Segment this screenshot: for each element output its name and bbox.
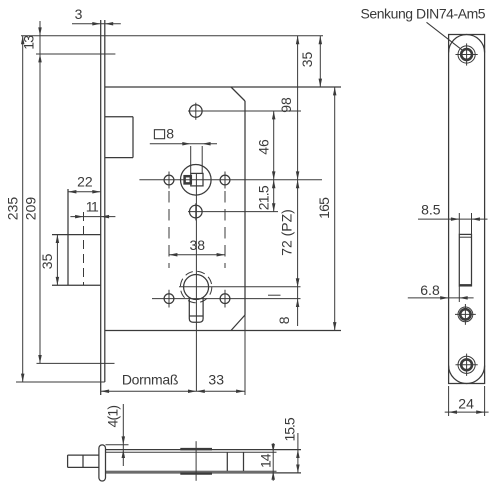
svg-text:98: 98 bbox=[278, 97, 294, 113]
svg-text:24: 24 bbox=[458, 395, 474, 411]
svg-text:33: 33 bbox=[208, 372, 224, 388]
svg-text:35: 35 bbox=[299, 52, 315, 68]
svg-text:46: 46 bbox=[255, 139, 271, 155]
svg-text:22: 22 bbox=[77, 174, 93, 190]
svg-text:14: 14 bbox=[257, 453, 273, 468]
svg-text:3: 3 bbox=[75, 6, 83, 22]
svg-text:4(1): 4(1) bbox=[105, 406, 121, 428]
svg-text:165: 165 bbox=[316, 197, 332, 219]
svg-text:8.5: 8.5 bbox=[421, 202, 441, 218]
svg-text:13: 13 bbox=[21, 35, 37, 50]
svg-text:15.5: 15.5 bbox=[282, 417, 298, 441]
svg-text:6.8: 6.8 bbox=[420, 282, 440, 298]
svg-text:Dornmaß: Dornmaß bbox=[122, 372, 178, 388]
svg-text:21.5: 21.5 bbox=[255, 185, 271, 210]
svg-text:209: 209 bbox=[23, 197, 39, 221]
svg-text:38: 38 bbox=[190, 237, 206, 253]
svg-text:235: 235 bbox=[4, 197, 20, 221]
svg-text:8: 8 bbox=[276, 316, 292, 324]
svg-text:11: 11 bbox=[86, 199, 99, 215]
svg-text:35: 35 bbox=[39, 253, 55, 269]
svg-text:72 (PZ): 72 (PZ) bbox=[278, 209, 294, 256]
svg-text:Senkung DIN74-Am5: Senkung DIN74-Am5 bbox=[361, 6, 486, 22]
svg-text:8: 8 bbox=[166, 126, 174, 142]
